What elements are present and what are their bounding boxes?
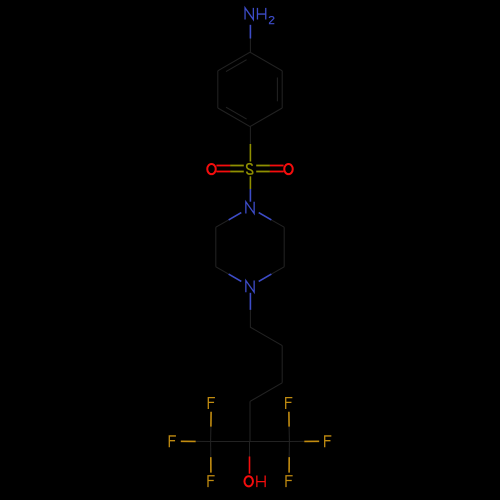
benzene ring C1-C6 aromatic — [218, 52, 282, 126]
nitrogen label N2 — [246, 281, 254, 293]
fluorine label F outer-right — [325, 436, 332, 447]
bond N2-C piperazine lower-right — [259, 267, 285, 282]
bond C-F outer-left — [181, 440, 211, 442]
bond C-F bottom-left — [210, 442, 212, 473]
bond C9-C10 — [250, 383, 282, 402]
fluorine label F outer-left — [169, 436, 176, 447]
bond N(amine)-C1 — [249, 25, 251, 52]
bond C-F outer-right — [289, 440, 319, 442]
amine label NH2 — [245, 8, 274, 24]
S=O double bond right — [256, 166, 283, 172]
S=O double bond left — [216, 166, 243, 172]
bond C11-CF3 left — [211, 441, 250, 443]
bond N2-C7 — [249, 293, 251, 327]
bond C-C piperazine left — [215, 227, 217, 267]
bond N1-C piperazine upper-left — [216, 213, 242, 228]
bond C7-C8 — [250, 327, 282, 346]
bond C4-S — [249, 127, 251, 162]
nitrogen label N1 — [246, 202, 254, 214]
oxygen label O right — [284, 164, 293, 174]
bond C-F bottom-right — [288, 442, 290, 473]
bond C-F top-left — [210, 412, 213, 442]
bond C10-C11 — [249, 401, 251, 441]
fluorine label F top-right — [286, 398, 293, 409]
bond C8-C9 — [281, 346, 283, 383]
hydroxyl label OH — [244, 475, 265, 487]
bond S-N1 — [249, 176, 251, 201]
oxygen label O left — [207, 164, 216, 174]
bond C-C piperazine right — [283, 227, 285, 267]
bond N1-C piperazine upper-right — [259, 213, 285, 228]
bond C11-CF3 right — [250, 441, 289, 443]
fluorine label F bottom-right — [286, 476, 293, 487]
bond C11-O hydroxyl — [249, 442, 251, 474]
fluorine label F bottom-left — [208, 476, 215, 487]
sulfur label S — [247, 164, 253, 174]
fluorine label F top-left — [208, 398, 215, 409]
bond C-F top-right — [288, 412, 291, 442]
bond N2-C piperazine lower-left — [216, 267, 242, 282]
